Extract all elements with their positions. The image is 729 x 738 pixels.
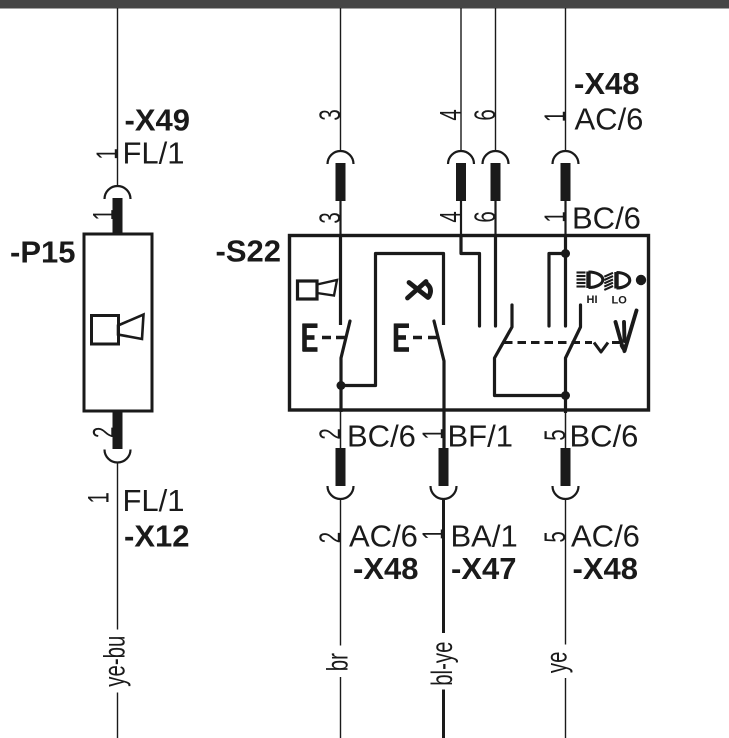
svg-text:6: 6	[469, 109, 502, 120]
svg-text:AC/6: AC/6	[575, 102, 644, 137]
connector pin 6 top: socket arc	[483, 151, 509, 164]
P15 pin 2 bar	[113, 412, 123, 449]
inner rect wire from node A to switch 2 fixed	[341, 254, 444, 386]
svg-text:-P15: -P15	[10, 235, 75, 270]
svg-text:-S22: -S22	[216, 234, 281, 269]
svg-text:2: 2	[314, 428, 347, 439]
connector pin 5 bottom: socket arc	[553, 486, 579, 499]
wire W5 upper (x=565.5)	[565, 8, 567, 151]
changeover arm L	[495, 305, 513, 396]
svg-text:-X12: -X12	[124, 519, 189, 554]
E symbol 2 dashes	[413, 336, 437, 339]
svg-text:4: 4	[435, 211, 468, 222]
junction dot node A	[337, 381, 346, 390]
pin 1 inner wire	[564, 236, 567, 326]
svg-text:BA/1: BA/1	[451, 519, 518, 554]
spring zigzag	[594, 343, 621, 353]
mechanical link dashed	[504, 341, 592, 344]
connector pin 5 bottom: pin bar	[561, 448, 571, 486]
P15 pin 2 socket arc	[105, 450, 131, 463]
horn icon S22: bell trapezoid	[317, 280, 337, 296]
connector pin 1 top (X48): socket arc	[553, 151, 579, 164]
svg-text:5: 5	[539, 531, 572, 542]
junction dot node C	[561, 391, 570, 400]
svg-text:-X48: -X48	[573, 551, 638, 586]
E symbol 1	[303, 324, 318, 352]
svg-text:BC/6: BC/6	[572, 201, 641, 236]
svg-text:BC/6: BC/6	[570, 419, 639, 454]
auto-return arrow	[616, 311, 637, 352]
svg-text:4: 4	[435, 109, 468, 120]
svg-text:br: br	[322, 653, 355, 671]
pin 4 inner wire with jog	[461, 236, 480, 326]
svg-text:HI: HI	[587, 294, 598, 306]
svg-text:ye: ye	[541, 652, 574, 674]
svg-text:1: 1	[417, 529, 450, 540]
switch 1 fixed contact (pin 3)	[339, 236, 342, 325]
connector BF pin bottom: socket arc	[431, 486, 457, 499]
horn icon P15: bell trapezoid	[118, 315, 144, 340]
svg-text:2: 2	[88, 427, 121, 438]
svg-text:1: 1	[539, 211, 572, 222]
top supply rail bar	[0, 0, 729, 9]
svg-text:FL/1: FL/1	[123, 136, 185, 171]
changeover arm R	[566, 305, 581, 396]
svg-text:3: 3	[314, 109, 347, 120]
connector pin 2 bottom: pin bar	[336, 448, 346, 486]
wire W6 lower (thick)	[442, 499, 445, 738]
headlight LO icon lamp	[614, 272, 618, 289]
jog wire from node B	[549, 254, 566, 327]
wire W1 lower	[117, 463, 119, 738]
wire node A to pin2 out	[339, 386, 342, 413]
svg-text:2: 2	[314, 532, 347, 543]
connector pin 3 top: pin bar	[336, 163, 346, 201]
connector pin 4 top: socket arc	[448, 151, 474, 164]
wire W4 upper (x=495.5)	[495, 8, 497, 151]
headlight HI icon lamp	[586, 272, 590, 289]
pin 6 inner wire	[494, 236, 497, 326]
svg-text:BF/1: BF/1	[448, 419, 513, 454]
svg-text:FL/1: FL/1	[123, 483, 185, 518]
wire W1 upper (x=117.5)	[117, 8, 119, 186]
connector pin 2 bottom: socket arc	[328, 486, 354, 499]
wire pin3 to box	[339, 201, 341, 234]
E symbol 1 dashes	[322, 336, 346, 339]
svg-text:-X49: -X49	[125, 103, 190, 138]
wire pin4 to box	[460, 201, 462, 234]
svg-text:6: 6	[469, 211, 502, 222]
headlight LO icon rays	[604, 273, 613, 290]
arrowhead	[620, 344, 629, 354]
horn icon S22: square	[298, 281, 318, 299]
switch 2 moving arm	[434, 321, 444, 449]
svg-text:-X48: -X48	[574, 66, 639, 101]
svg-text:AC/6: AC/6	[571, 519, 640, 554]
junction dot node B (pin1)	[561, 249, 570, 258]
wire pin1 to box	[564, 201, 566, 234]
connector -X49 pin 1 (socket arc)	[105, 186, 131, 199]
E symbol 2	[395, 324, 410, 352]
S22 bottom stub pin5	[565, 411, 567, 449]
S22 bottom stub pin2	[340, 411, 342, 449]
svg-text:1: 1	[91, 148, 124, 159]
horn P15 box	[84, 234, 152, 411]
wire W5 lower	[565, 499, 567, 738]
wire pin6 to box	[494, 201, 496, 234]
svg-text:-X48: -X48	[353, 551, 418, 586]
headlight HI icon rays	[577, 273, 586, 287]
svg-text:LO: LO	[612, 295, 628, 307]
connector pin 6 top: pin bar	[491, 163, 501, 201]
svg-text:-X47: -X47	[451, 551, 516, 586]
svg-text:1: 1	[417, 428, 450, 439]
wire W3 upper (x=461)	[460, 8, 462, 151]
switch 1 moving arm	[341, 321, 350, 386]
bottom link wire	[495, 396, 566, 414]
horn icon P15: square	[92, 316, 119, 345]
svg-text:AC/6: AC/6	[349, 519, 418, 554]
indicator dot	[636, 275, 646, 285]
washer icon	[408, 282, 431, 299]
connector pin 4 top: pin bar	[456, 163, 466, 201]
connector -X49 pin 1 (male pin bar)	[113, 198, 123, 234]
svg-text:1: 1	[83, 492, 116, 503]
svg-text:bl-ye: bl-ye	[426, 642, 459, 686]
svg-text:ye-bu: ye-bu	[99, 636, 132, 687]
svg-text:BC/6: BC/6	[347, 419, 416, 454]
svg-text:1: 1	[88, 209, 121, 220]
connector pin 3 top: socket arc	[328, 151, 354, 164]
wire W2 lower	[340, 499, 342, 738]
svg-text:1: 1	[539, 111, 572, 122]
svg-text:3: 3	[314, 212, 347, 223]
switch unit S22 box	[290, 236, 649, 411]
wire W2 upper (x=340.5)	[340, 8, 342, 151]
connector BF pin bottom: pin bar	[439, 448, 449, 486]
connector pin 1 top (X48): pin bar	[561, 163, 571, 201]
svg-text:5: 5	[539, 429, 572, 440]
